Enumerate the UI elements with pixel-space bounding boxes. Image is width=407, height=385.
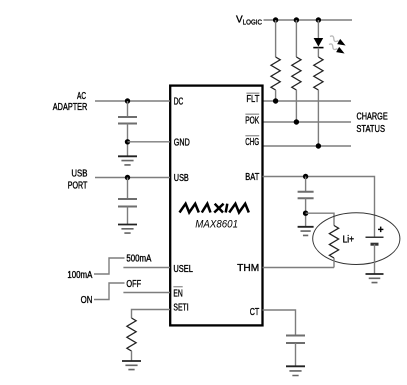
op IC U1 MAX8601 body [170,86,262,326]
wire lead C1 to GND wire [127,124,129,157]
resistor R2 (POK pull-up) [292,57,301,90]
node POK junction [294,119,299,124]
svg-text:MAX8601: MAX8601 [195,218,238,230]
node DC junction [125,98,130,103]
node rail junction 3 [316,17,321,22]
LED D1 (charge indicator) [314,38,324,47]
svg-text:POK: POK [245,116,259,127]
wire lead R3 to CHG [317,90,319,146]
resistor R3 (CHG pull-up) [314,57,323,90]
switch S2 EN throw stub (OFF) [94,283,125,300]
svg-text:SETI: SETI [173,303,188,314]
svg-text:CT: CT [250,307,260,318]
wire lead to C1 [127,101,129,117]
svg-text:+: + [378,225,384,236]
thermistor RT (in pack) [329,226,338,259]
wire USB input [95,177,170,179]
wire lead BAT to C3 [305,177,307,192]
wire CHG [263,145,352,147]
node rail junction 2 [294,17,299,22]
svg-text:USB: USB [174,173,189,184]
svg-text:Li+: Li+ [343,235,355,246]
svg-text:CHG: CHG [245,137,259,148]
wire BAT [263,177,375,238]
IC U1 MAXIM logo [180,204,249,213]
svg-text:100mA: 100mA [67,270,92,281]
wire EN [123,292,170,294]
wire lead R4 to ground [131,351,133,361]
wire GND [128,141,171,143]
wire lead rail to LED [317,20,319,38]
wire lead R1 to FLT [275,90,277,101]
resistor R4 (SETI current set) [127,318,136,351]
node CHG junction [316,143,321,148]
wire lead C4 to ground [295,343,297,366]
wire V_LOGIC rail [264,19,353,21]
capacitor C2 (USB input) [118,199,137,207]
wire DC input [95,100,170,102]
wire lead C2 to ground [127,207,129,225]
node rail junction 1 [273,17,278,22]
resistor R1 (FLT pull-up) [271,57,280,90]
capacitor C3 (BAT) [298,192,314,199]
ground (DC input cap) [118,155,137,157]
ground (SETI resistor) [122,360,141,362]
wire USEL [123,267,170,269]
svg-text:500mA: 500mA [126,254,151,265]
svg-text:AC: AC [77,91,86,102]
svg-text:THM: THM [237,263,259,274]
svg-text:USEL: USEL [173,264,193,275]
wire lead rail to R2 [295,20,297,57]
wire lead R2 to POK [295,90,297,122]
wire SETI [132,310,171,319]
wire lead thermistor to THM [333,258,335,268]
LED D1 light emission arrows [329,34,348,48]
svg-text:DC: DC [174,96,184,107]
ground (BAT cap) [298,226,314,228]
svg-text:BAT: BAT [245,172,259,183]
wire POK [263,121,352,123]
wire THM [263,267,335,269]
node GND junction [125,139,130,144]
ground (battery) [366,273,384,275]
wire FLT [263,100,352,102]
node FLT junction [273,98,278,103]
svg-text:GND: GND [174,137,190,148]
wire battery to ground [374,244,376,274]
svg-text:EN: EN [173,288,182,299]
ground (USB input cap) [118,224,137,226]
node BAT junction [303,174,308,179]
battery pack outline (ellipse) [313,213,400,265]
svg-text:ON: ON [81,295,93,306]
wire lead C3 to ground node [305,198,307,227]
svg-text:PORT: PORT [68,181,88,192]
wire lead LED to R3 [317,48,319,57]
wire junction to thermistor top [306,213,334,225]
node USB junction [125,175,130,180]
wire lead rail to R1 [275,20,277,57]
capacitor C1 (DC input) [118,117,137,124]
svg-text:ADAPTER: ADAPTER [53,102,88,113]
svg-text:OFF: OFF [126,279,141,290]
svg-text:USB: USB [71,169,87,180]
node thermistor bias junction [303,211,308,216]
svg-text:CHARGE: CHARGE [357,112,388,123]
svg-text:FLT: FLT [246,94,259,105]
battery cell B1 plates [366,236,384,238]
capacitor C4 (CT timing) [286,336,305,344]
switch S1 USEL throw stub (500mA) [94,258,125,274]
ground (CT cap) [286,365,305,367]
wire CT [263,310,296,336]
wire lead to C2 [127,178,129,200]
svg-text:STATUS: STATUS [356,124,385,135]
